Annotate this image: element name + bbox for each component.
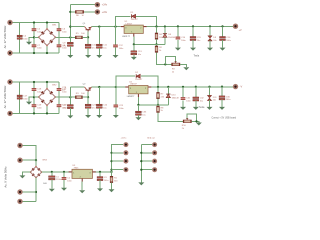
wire bridge2 bottom feed [46,105,48,113]
capacitor C11 [96,44,107,49]
pad SV1-2 [123,150,128,155]
junction C11 top [98,26,100,28]
capacitor C14 [176,37,186,42]
junction C24 top [98,86,100,88]
svg-text:100n: 100n [186,101,190,103]
ground C2 [61,188,67,191]
wire SV1 pin3 [112,160,124,162]
wire SV2 pin4 [141,169,152,171]
svg-text:100n: 100n [62,32,66,34]
capacitor C7 [32,44,42,49]
svg-text:1N4007: 1N4007 [131,19,139,21]
capacitor C31 [181,97,191,102]
wire C25 column [115,87,117,105]
junction trimmer2 loop [195,120,197,122]
wire ADJ rail [134,43,165,45]
wire midrail2 DC+ [34,96,39,98]
wire D9 column [209,26,211,37]
wire D1 loop [116,16,131,26]
junction R4 top [155,25,157,27]
junction ADJ2/R8 [157,104,159,106]
ground C9 [67,55,73,58]
ground C11 [96,55,102,58]
ground C24 [96,115,102,118]
wire C16 column [222,26,224,36]
trimmer R10 [182,118,192,130]
wire R2 top [156,44,158,46]
wire C5/C7 column [33,23,35,54]
ground C31 [180,107,186,110]
wire bridge2 top feed [46,82,48,89]
wire C18/C19 column [33,82,35,113]
junction SV2-4 [140,169,142,171]
wire C24 column [98,87,100,104]
wire D10 bottom [167,98,169,105]
wire C17 column [19,82,21,113]
wire DC+ rail2 to R9 [55,96,75,98]
svg-text:C7B: C7B [62,87,67,89]
capacitor C30 [219,96,231,101]
regulator U2 [125,81,151,98]
junction SV1-4 [110,169,112,171]
diode D1 [131,12,139,21]
capacitor C8 [57,44,67,49]
pad X2-2 [95,9,100,14]
junction C16 top [221,25,223,27]
wire C32 column [195,87,197,97]
wire C14 ground stem [177,40,179,48]
wire C1 column [51,172,53,176]
svg-text:+5Vcc: +5Vcc [121,138,128,140]
svg-text:100n: 100n [67,180,71,182]
wire bridge bottom feed [46,46,48,53]
capacitor C2 [62,177,72,182]
junction C30 top [221,86,223,88]
svg-text:24v: 24v [213,40,216,42]
wire R4 to ADJ [156,39,158,44]
wire D10 column [167,87,169,94]
svg-text:100n: 100n [181,40,185,42]
svg-text:Conect + 5V USB board: Conect + 5V USB board [212,116,237,119]
wire R6 to column [70,11,75,13]
ground C16 [220,48,226,51]
svg-text:1N4148: 1N4148 [168,37,176,39]
wire C25 ground stem [115,108,117,115]
wire input column2 [69,87,71,105]
wire D11 ground stem [209,100,211,107]
svg-text:10u: 10u [200,100,203,102]
svg-text:LM337: LM337 [130,84,137,86]
pad SV2-1 [152,142,157,147]
wire SV1 pin2 [112,152,124,154]
wire trimmer2 to ground [191,121,198,122]
wire C2 column [63,172,65,177]
svg-text:10u: 10u [142,115,145,117]
capacitor C17 [17,95,28,100]
wire R4 column top [156,27,158,34]
wire C13 ground stem [133,54,135,57]
regulator U1 [121,21,147,38]
junction SV1-3 [110,160,112,162]
diode D8 [163,34,176,39]
ground bridge3 [19,175,25,178]
wire C32 ground stem [195,101,197,107]
wire C23 ground stem [87,108,89,115]
ground C25 [113,115,119,118]
wire C15 column [192,26,194,36]
ground C12 [113,55,119,58]
wire C3 ground stem [99,180,101,188]
resistor R7 [157,92,165,98]
capacitor C20 [57,88,67,93]
pad X1-1 [7,20,12,25]
ground GND2 [26,102,32,105]
diode D10 [166,94,179,99]
junction C33 top [137,104,139,106]
junction node DCP2 [69,96,71,98]
svg-text:100n: 100n [23,98,27,100]
wire trimmer to ground [180,64,186,67]
junction C31 top [182,86,184,88]
diode D2 [135,72,143,81]
wire raw rail row3 [42,171,112,173]
svg-text:100n: 100n [119,48,123,50]
wire AC2 top rail [10,81,59,83]
capacitor C12 [113,45,123,50]
junction C7 bottom [33,52,35,54]
pad X3-1 [7,79,12,84]
wire C12 column [115,27,117,45]
svg-text:7805: 7805 [74,168,80,170]
wire SV2 pin1 [141,144,152,146]
junction input col rail [69,26,71,28]
svg-text:100n: 100n [37,48,41,50]
junction bridge2 bottom [46,112,48,114]
svg-text:47u: 47u [63,108,66,110]
junction C3 top [99,171,101,173]
svg-text:100u: 100u [104,180,108,182]
svg-text:5k: 5k [161,110,163,112]
ground C23 [85,115,91,118]
wire SV1 pin4 [112,169,124,171]
wire C1 ground stem [51,180,53,189]
wire midrail DC+ [34,36,39,38]
resistor R2 [155,46,163,52]
junction bridge2 top [46,81,48,83]
svg-text:10u: 10u [138,54,141,56]
junction trimmer loop [164,63,166,65]
pad OUT2 [233,84,238,89]
bridge rectifier B1 [38,25,58,47]
junction C13 top [133,43,135,45]
wire D11 column [209,87,211,97]
wire bridge top feed [46,23,48,30]
wire C10 ground stem [87,48,89,55]
resistor R5 [75,33,85,38]
wire ADJ stem [133,37,135,45]
svg-text:1N4148: 1N4148 [172,98,180,100]
svg-text:47u: 47u [92,108,95,110]
wire C4 column [19,23,21,54]
svg-text:2200u: 2200u [56,179,62,181]
junction C18 top [33,81,35,83]
capacitor C23 [85,104,97,109]
junction C5/C7 mid [33,36,35,38]
wire D1 loop right [136,16,156,26]
junction C25/D2 node [115,86,117,88]
wire collector rail [70,26,84,28]
wire U3 ground stem [81,181,83,190]
wire AC1 bottom rail [10,52,59,54]
wire R1 column [111,172,113,176]
diode D11 [207,95,217,101]
capacitor C16 [220,37,232,42]
svg-text:100n: 100n [119,108,123,110]
svg-text:Ac. 17 Volts 50Hz: Ac. 17 Volts 50Hz [3,85,7,108]
wire ground tap row2 [29,97,34,101]
wire R8 top [157,105,159,106]
ground C30 [219,107,225,110]
svg-text:100n: 100n [37,91,41,93]
wire emitter rail2 [92,86,126,88]
wire C14 column [177,26,179,36]
pad X3-2 [7,111,12,116]
svg-text:Ac. 9 Volts 50Hz: Ac. 9 Volts 50Hz [3,166,7,188]
junction C2 top [63,171,65,173]
resistor R6 [75,11,84,17]
junction base2 node [87,96,89,98]
capacitor C13 [131,51,143,56]
pad X4-1 [17,143,22,148]
capacitor C9 [63,42,74,47]
resistor R1 [110,176,118,182]
wire ground tap row1 [29,37,34,41]
junction node DCP [69,36,71,38]
ground GND1 [26,42,32,45]
junction ADJ/R2 [155,43,157,45]
wire C12 ground stem [115,48,117,55]
regulator U3 [69,165,96,182]
wire output rail row2 [151,86,235,88]
wire C33 column [137,105,139,111]
junction base node [87,36,89,38]
svg-text:47u: 47u [63,45,66,47]
svg-text:2k: 2k [182,128,184,130]
ground trimmer [183,67,189,70]
wire base2 [87,92,89,97]
svg-text:100n: 100n [37,108,41,110]
svg-text:Tesla: Tesla [199,106,205,109]
wire wiper loop [165,56,175,64]
pad SV2-4 [152,167,157,172]
transistor Q2 [83,84,92,92]
wire C11 ground stem [98,48,100,55]
diode D9 [208,36,217,42]
wire R5 to base [82,36,88,38]
svg-text:24v: 24v [213,100,216,102]
junction D8 top [164,25,166,27]
capacitor C4 [17,35,28,40]
wire C15 ground stem [192,40,194,48]
pad OUT1 [233,24,238,29]
junction C32 top [195,86,197,88]
wire C16 ground stem [222,40,224,48]
bridge rectifier B2 [38,84,58,106]
wire C30 column [221,87,223,96]
resistor R4 [155,33,163,39]
junction R1 top [110,171,112,173]
capacitor C6 [57,28,67,33]
junction D9 top [209,25,211,27]
resistor R8 [157,106,165,112]
wire wiper loop2 [187,114,196,121]
wire ADJ2 rail [138,104,168,106]
pad SV2-3 [152,159,157,164]
capacitor C5 [32,28,42,33]
capacitor C19 [32,104,42,109]
resistor R9 [75,93,85,99]
ground C14 [175,48,181,51]
capacitor C32 [193,97,205,102]
ground D9 [207,48,213,51]
ground C3 [97,188,103,191]
wire pad X4-2 link [20,159,36,161]
junction R7 top [157,86,159,88]
junction D11 top [208,86,210,88]
junction bridge top [46,21,48,23]
junction SV2-3 [140,160,142,162]
junction bridge bottom [46,52,48,54]
svg-text:100n: 100n [37,32,41,34]
ground header2 [138,182,144,185]
svg-text:100u: 100u [226,99,230,101]
ground trimmer2 [196,123,202,126]
svg-text:5k: 5k [159,50,161,52]
capacitor C24 [96,104,108,109]
ground C15 [190,48,196,51]
svg-text:47u: 47u [92,48,95,50]
svg-text:1N4007: 1N4007 [135,79,143,81]
svg-text:+V: +V [239,29,242,32]
wire bridge3 bottom feed [35,178,37,202]
ground C32 [193,107,199,110]
svg-text:100n: 100n [62,48,66,50]
ground C1 [49,189,55,192]
svg-text:100u: 100u [226,40,230,42]
wire R7 to ADJ2 [157,99,159,105]
ground U3 [79,190,85,193]
trimmer R3 [172,61,180,73]
wire SV2 pin2 [141,152,152,154]
pad SV2-2 [152,150,157,155]
junction input col top [69,11,71,13]
wire R7 column top [157,87,159,92]
wire D8 column [164,27,166,34]
svg-text:LM317: LM317 [126,23,133,25]
junction D10 top [167,86,169,88]
wire R1 ground stem [111,183,113,190]
wire C11 column [98,27,100,45]
capacitor C3 [97,177,108,182]
wire C33 ground stem [137,115,139,118]
wire D8 bottom [164,37,166,44]
junction C19 bottom [33,112,35,114]
wire pad X2-1 link [70,4,97,6]
junction C15 top [192,25,194,27]
junction C1 top [51,171,53,173]
junction C14 top [177,25,179,27]
capacitor C33 [136,111,148,116]
wire AC1 top rail [10,22,59,24]
capacitor C25 [114,105,124,110]
wire ADJ2 stem [137,97,139,105]
bridge rectifier B3 [29,159,47,178]
wire C2 ground stem [63,180,65,188]
capacitor C21 [57,104,67,109]
svg-text:10u: 10u [197,40,200,42]
ground R1 [109,189,115,192]
wire input column [69,5,71,43]
pad X4-3 [17,189,22,194]
pad X1-2 [7,50,12,55]
junction AC3 top [35,159,37,161]
wire D2 loop right [141,76,158,87]
capacitor C1 [49,176,62,181]
wire R8 to trimmer [158,112,183,121]
wire base cap column2 [87,97,89,104]
svg-text:10u: 10u [103,108,106,110]
wire C31 ground stem [182,100,184,107]
transistor Q1 [83,23,92,31]
pad X4-4 [17,199,22,204]
wire DC+ rail to R5 [55,36,75,38]
capacitor C18 [32,88,42,93]
svg-text:LM317T: LM317T [122,36,131,38]
wire header1 column [112,145,124,172]
ground C22 [67,115,73,118]
pad X4-2 [17,158,22,163]
ground C33 [135,117,141,120]
svg-text:-V: -V [240,86,243,89]
ground C10 [85,55,91,58]
wire bridge3 top feed [35,160,37,166]
svg-text:2k: 2k [172,71,174,73]
capacitor C10 [85,44,97,49]
wire D9 ground stem [209,40,211,47]
wire C22 ground stem [69,108,71,115]
wire R9 to base [82,96,88,98]
wire pad X4-4 link [20,200,36,202]
wire output rail row1 [147,26,236,28]
wire C31 column [182,87,184,97]
svg-text:Gnd out: Gnd out [147,137,155,140]
svg-text:LM337T: LM337T [127,96,136,98]
wire collector rail2 [70,86,84,88]
svg-text:Ac. 17 Volts 50Hz: Ac. 17 Volts 50Hz [3,25,7,48]
ground D11 [207,107,213,110]
pad X2-1 [95,2,100,7]
wire C9 ground stem [69,46,71,55]
pad SV1-4 [123,167,128,172]
svg-text:Tesla: Tesla [194,54,200,57]
wire C13 column [133,44,135,51]
wire bridge3 left to ground [22,172,30,175]
capacitor C15 [190,37,202,42]
wire C3 column [99,172,101,177]
wire C6/C8 column [58,23,60,54]
wire emitter rail [92,26,121,28]
junction SV2-2 [140,152,142,154]
